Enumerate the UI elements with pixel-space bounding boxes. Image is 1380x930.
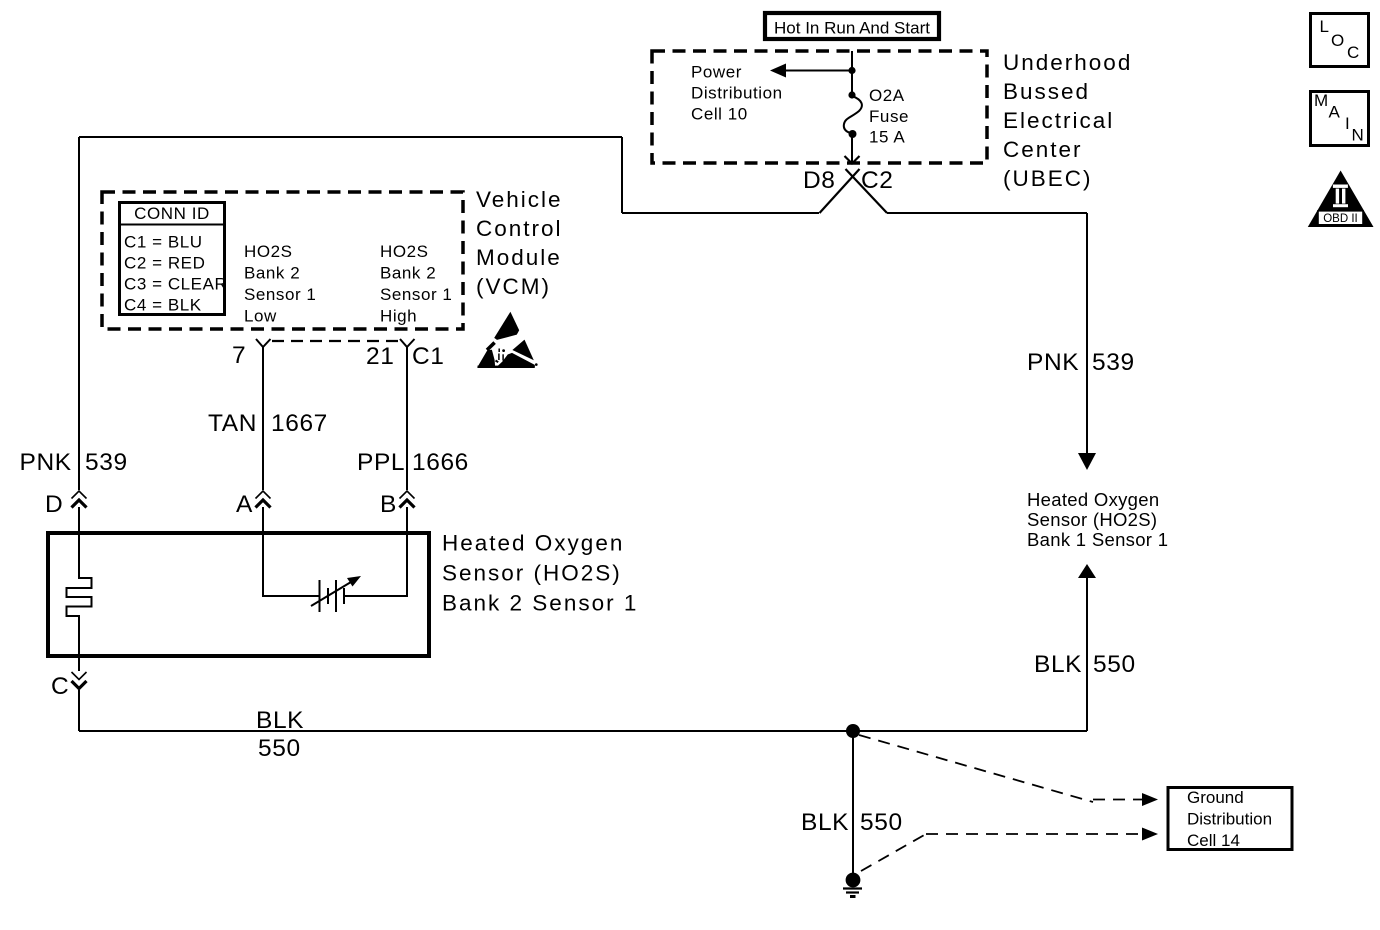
svg-text:PPL: PPL <box>357 449 405 476</box>
svg-text:PNK: PNK <box>1027 349 1079 376</box>
svg-text:Bank 1 Sensor 1: Bank 1 Sensor 1 <box>1027 529 1168 550</box>
svg-text:C: C <box>51 673 69 700</box>
svg-text:21: 21 <box>366 343 394 370</box>
svg-text:Center: Center <box>1003 137 1083 162</box>
svg-text:550: 550 <box>258 735 301 762</box>
svg-text:Control: Control <box>476 216 563 241</box>
svg-text:15 A: 15 A <box>869 128 905 147</box>
svg-text:1666: 1666 <box>412 449 469 476</box>
svg-text:Cell 14: Cell 14 <box>1187 831 1240 850</box>
svg-text:Underhood: Underhood <box>1003 50 1132 75</box>
svg-text:Hot In Run And Start: Hot In Run And Start <box>774 19 930 38</box>
svg-text:C2 = RED: C2 = RED <box>124 254 205 273</box>
svg-text:HO2S: HO2S <box>380 242 429 261</box>
svg-text:L: L <box>1320 17 1330 36</box>
svg-text:Distribution: Distribution <box>1187 810 1272 829</box>
svg-text:Cell 10: Cell 10 <box>691 105 748 124</box>
svg-text:HO2S: HO2S <box>244 242 293 261</box>
svg-text:I: I <box>1345 114 1350 133</box>
svg-text:OBD II: OBD II <box>1323 213 1358 225</box>
svg-text:B: B <box>380 491 397 518</box>
svg-text:High: High <box>380 307 417 326</box>
svg-text:(UBEC): (UBEC) <box>1003 166 1093 191</box>
svg-text:Sensor 1: Sensor 1 <box>380 285 452 304</box>
svg-text:Distribution: Distribution <box>691 84 783 103</box>
svg-text:(VCM): (VCM) <box>476 274 551 299</box>
svg-text:Module: Module <box>476 245 562 270</box>
svg-text:539: 539 <box>1092 349 1135 376</box>
svg-text:C4 = BLK: C4 = BLK <box>124 296 202 315</box>
svg-text:C1 = BLU: C1 = BLU <box>124 233 203 252</box>
svg-text:7: 7 <box>232 342 246 369</box>
svg-text:TAN: TAN <box>208 410 257 437</box>
svg-text:D: D <box>45 491 63 518</box>
svg-text:Sensor 1: Sensor 1 <box>244 285 316 304</box>
svg-text:N: N <box>1352 126 1365 145</box>
svg-text:C2: C2 <box>861 167 894 194</box>
svg-text:Sensor (HO2S): Sensor (HO2S) <box>442 561 622 586</box>
svg-text:A: A <box>236 491 253 518</box>
svg-text:1667: 1667 <box>271 410 328 437</box>
svg-text:Fuse: Fuse <box>869 107 909 126</box>
svg-text:Heated Oxygen: Heated Oxygen <box>442 531 624 556</box>
svg-text:O: O <box>1331 31 1345 50</box>
svg-text:CONN ID: CONN ID <box>134 204 210 223</box>
svg-text:Electrical: Electrical <box>1003 108 1114 133</box>
svg-text:D8: D8 <box>803 167 836 194</box>
svg-text:Sensor (HO2S): Sensor (HO2S) <box>1027 509 1157 530</box>
svg-text:C1: C1 <box>412 343 445 370</box>
svg-text:A: A <box>1329 103 1341 122</box>
svg-text:Bank 2 Sensor 1: Bank 2 Sensor 1 <box>442 591 638 616</box>
svg-text:C3 = CLEAR: C3 = CLEAR <box>124 275 227 294</box>
svg-text:BLK: BLK <box>801 809 849 836</box>
svg-text:O2A: O2A <box>869 86 905 105</box>
svg-text:M: M <box>1314 91 1329 110</box>
svg-text:Ground: Ground <box>1187 788 1244 807</box>
svg-text:Power: Power <box>691 63 742 82</box>
svg-text:PNK: PNK <box>20 449 72 476</box>
svg-text:Low: Low <box>244 307 277 326</box>
svg-text:Heated Oxygen: Heated Oxygen <box>1027 489 1159 510</box>
svg-text:Bank 2: Bank 2 <box>244 264 300 283</box>
svg-text:Vehicle: Vehicle <box>476 187 563 212</box>
svg-text:550: 550 <box>860 809 903 836</box>
svg-text:BLK: BLK <box>256 707 304 734</box>
svg-text:C: C <box>1347 43 1360 62</box>
svg-text:Bank 2: Bank 2 <box>380 264 436 283</box>
svg-text:539: 539 <box>85 449 128 476</box>
svg-text:Bussed: Bussed <box>1003 79 1090 104</box>
svg-text:BLK: BLK <box>1034 651 1082 678</box>
svg-text:550: 550 <box>1093 651 1136 678</box>
